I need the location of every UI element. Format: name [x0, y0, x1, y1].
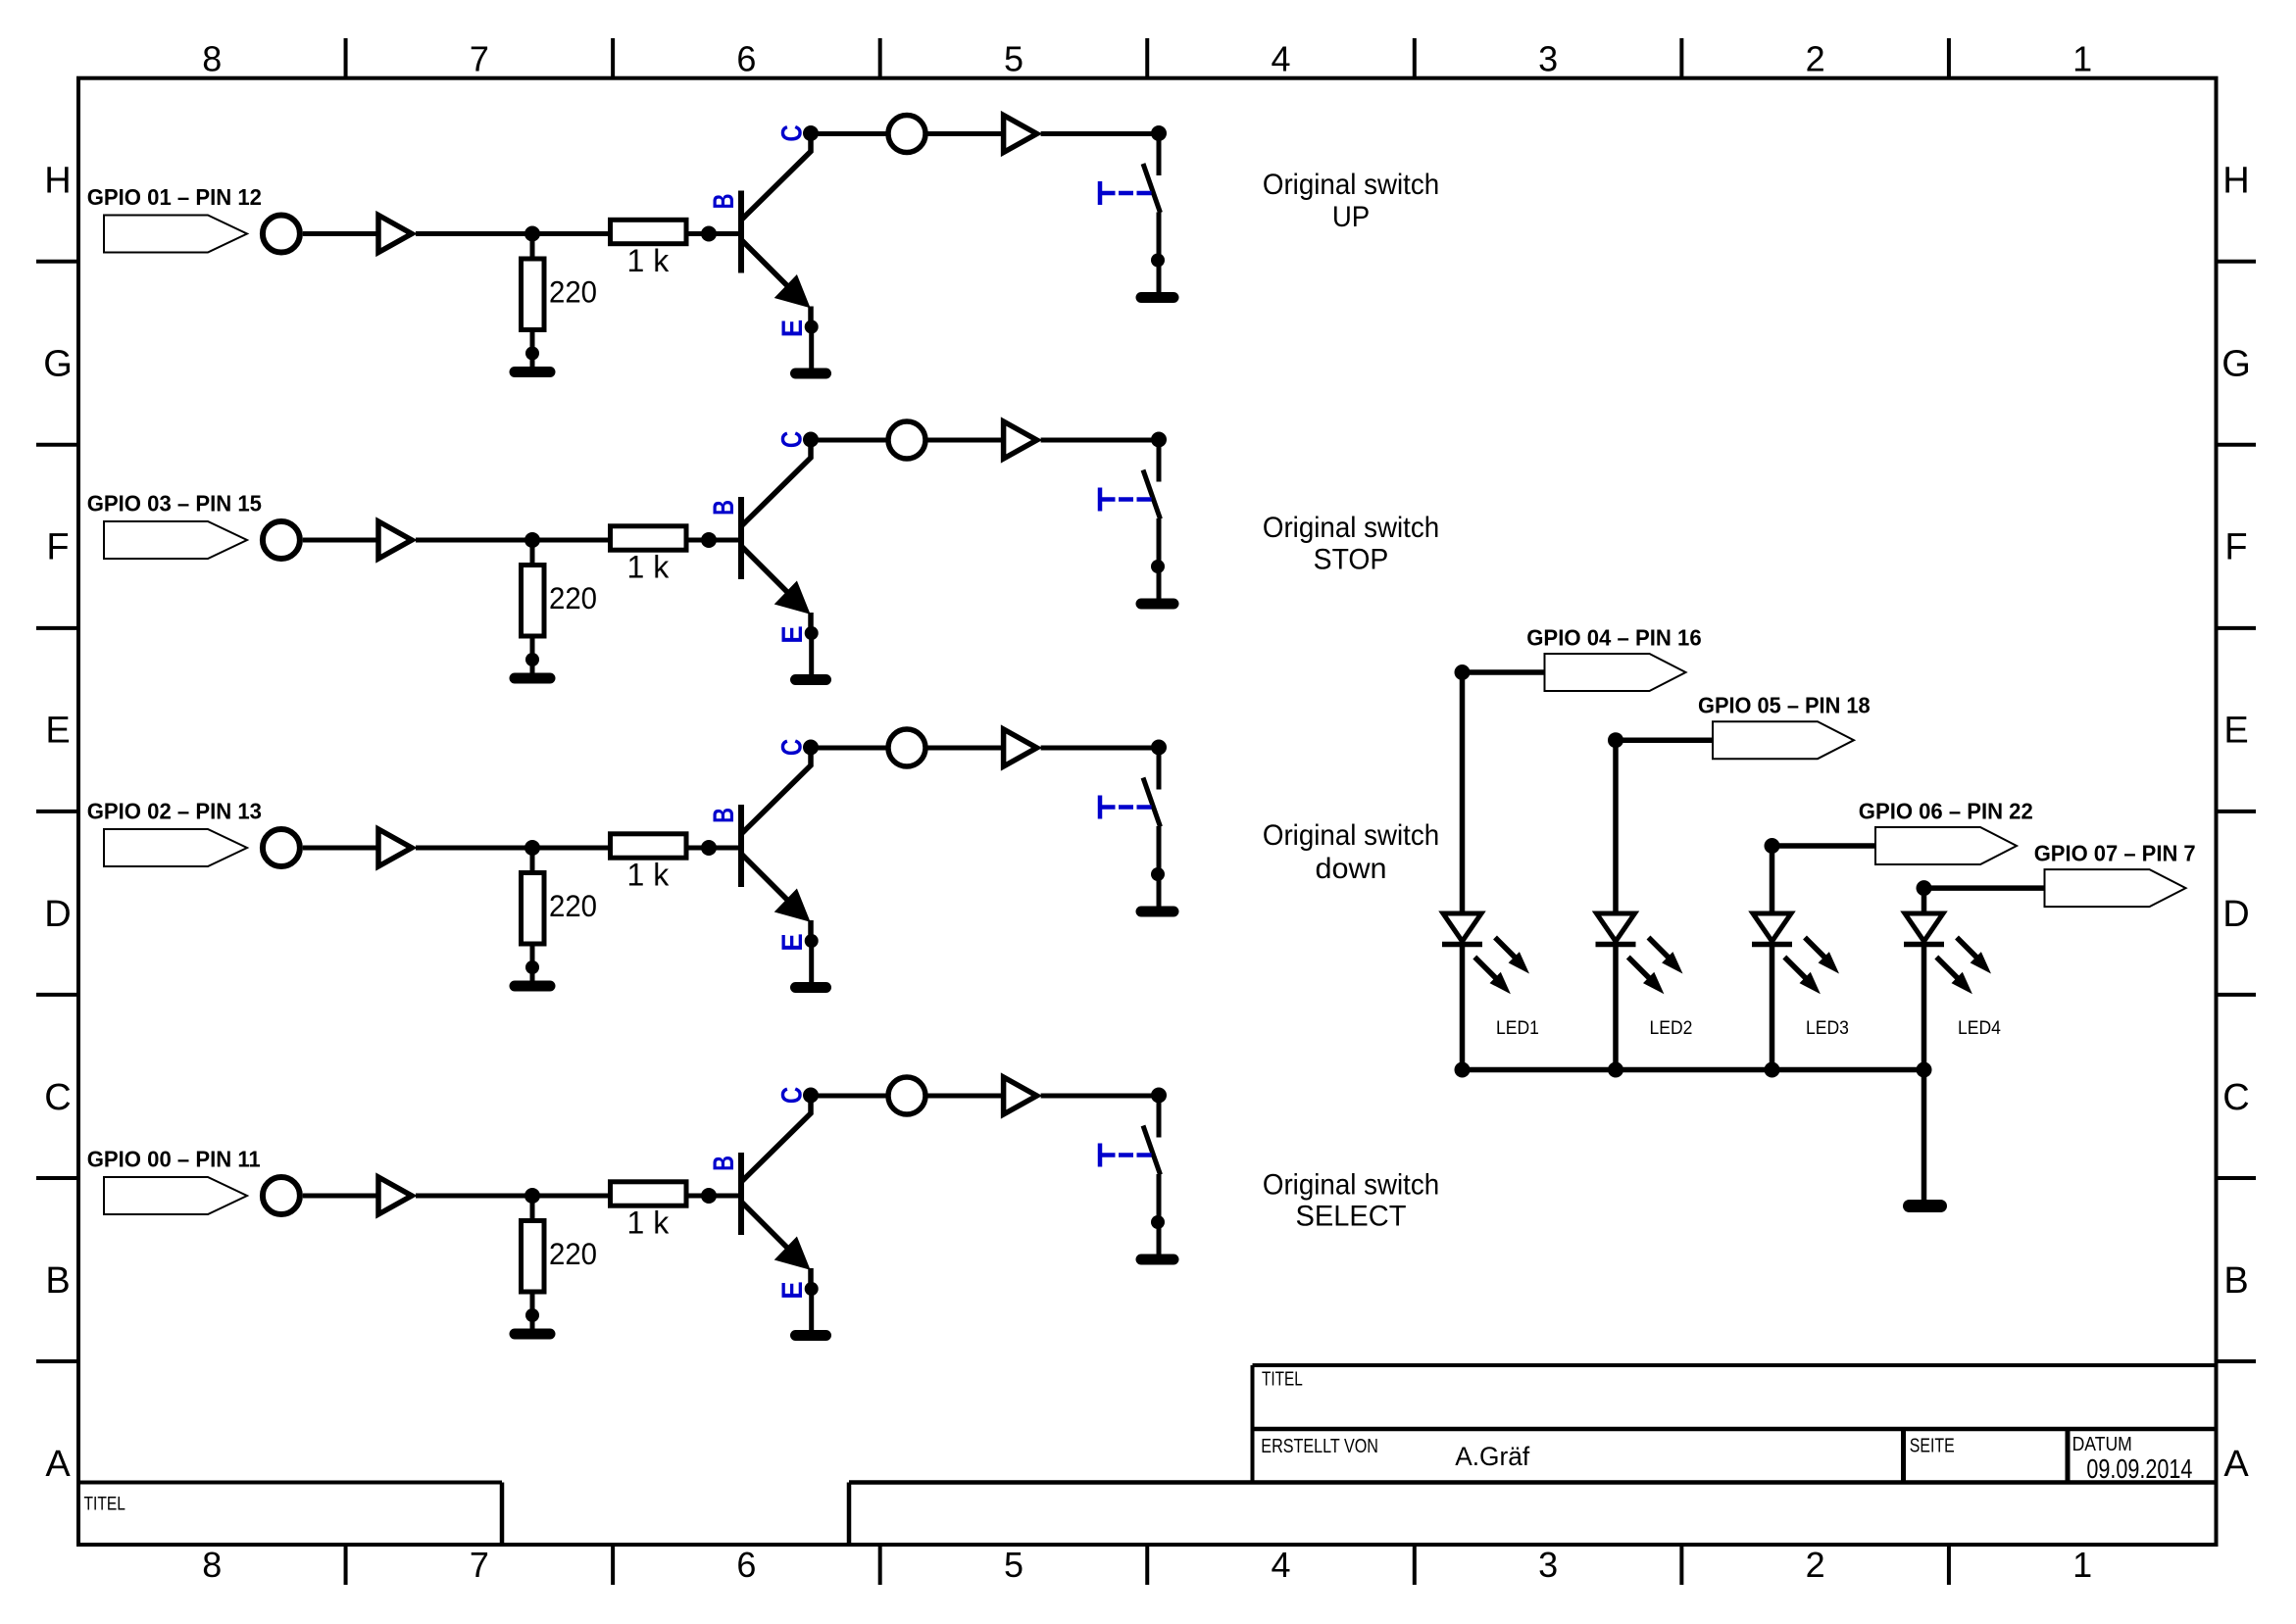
buffer U3a [378, 829, 412, 866]
svg-text:H: H [44, 161, 71, 202]
svg-text:2: 2 [1806, 1545, 1825, 1585]
wire switch to ground (row 4) [1157, 1174, 1162, 1255]
wire node to connector (LED4) [1924, 885, 2045, 891]
wire 1k resistor to base (row 3) [688, 846, 738, 851]
wire pad to buffer (row 1) [303, 231, 376, 236]
output connector pentagon (LED1) [1545, 654, 1686, 691]
switch top node (row 2) [1151, 432, 1167, 448]
node E (row 3) [805, 934, 819, 948]
svg-text:E: E [776, 1281, 809, 1299]
junction node (row 1) [524, 226, 540, 242]
wire buffer to switch (row 1) [1041, 131, 1159, 136]
wire buffer to 1k resistor (row 3) [416, 846, 608, 851]
node C (row 4) [803, 1088, 819, 1104]
svg-text:TITEL: TITEL [84, 1493, 126, 1514]
wire emitter to ground (row 2) [809, 632, 814, 674]
wire node to connector (LED3) [1772, 843, 1876, 849]
lamp circle (row 3) [888, 729, 925, 766]
node E (row 1) [805, 320, 819, 334]
switch actuator (blue, row 4) [1098, 1144, 1103, 1167]
transistor Q1 emitter branch [742, 241, 804, 303]
wire collector node to lamp (row 1) [811, 131, 889, 136]
svg-text:B: B [707, 808, 740, 823]
svg-text:C: C [44, 1077, 71, 1118]
base node (row 1) [701, 226, 717, 242]
transistor Q3 emitter branch [742, 855, 804, 916]
wire junction down to 220 resistor (row 2) [530, 540, 535, 567]
svg-text:Original switch: Original switch [1263, 819, 1439, 852]
diode LED3 [1753, 913, 1791, 941]
switch top node (row 3) [1151, 740, 1167, 756]
light emission arrows (LED2) [1649, 938, 1671, 960]
wire switch to ground (row 2) [1157, 518, 1162, 599]
wire pad to buffer (row 4) [303, 1194, 376, 1199]
wire buffer to switch (row 2) [1041, 438, 1159, 443]
ground (emitter, row 4) [796, 1330, 826, 1341]
svg-text:3: 3 [1538, 38, 1558, 78]
ground (switch, row 4) [1141, 1255, 1173, 1265]
lamp circle (row 4) [888, 1077, 925, 1114]
svg-text:LED1: LED1 [1496, 1016, 1539, 1038]
node E (row 2) [805, 626, 819, 640]
svg-text:B: B [707, 194, 740, 210]
wire emitter to ground (row 1) [809, 326, 814, 369]
ground (emitter, row 1) [796, 369, 826, 379]
svg-text:7: 7 [470, 1545, 489, 1585]
svg-text:7: 7 [470, 38, 489, 78]
buffer U4b [1004, 1077, 1037, 1114]
svg-text:B: B [45, 1260, 70, 1302]
wire node to connector (LED2) [1616, 737, 1713, 743]
pad circle (row 4) [263, 1177, 300, 1214]
ground (below 220 resistor, row 3) [515, 981, 550, 992]
wire buffer to switch (row 4) [1041, 1094, 1159, 1099]
junction at ground (row 4) [525, 1308, 539, 1322]
transistor Q4 base bar [738, 1153, 744, 1235]
svg-text:6: 6 [736, 1545, 756, 1585]
svg-text:C: C [2222, 1077, 2249, 1118]
svg-text:5: 5 [1004, 1545, 1023, 1585]
diode LED4 [1905, 913, 1943, 941]
svg-text:B: B [707, 1156, 740, 1171]
buffer U2b [1004, 421, 1037, 459]
svg-text:F: F [2224, 527, 2247, 568]
output connector pentagon (LED2) [1713, 721, 1854, 759]
wire node to connector (LED1) [1463, 669, 1545, 675]
output connector pentagon (LED4) [2045, 869, 2186, 907]
wire LED3 column [1770, 846, 1775, 1070]
svg-text:E: E [776, 625, 809, 643]
svg-text:GPIO 01 – PIN 12: GPIO 01 – PIN 12 [87, 184, 262, 211]
resistor 220 (row 4) [522, 1221, 545, 1293]
wire collector node to lamp (row 2) [811, 438, 889, 443]
transistor Q3 base bar [738, 805, 744, 887]
wire emitter to ground (row 3) [809, 940, 814, 982]
node E (row 4) [805, 1282, 819, 1296]
switch actuator (blue, row 2) [1098, 488, 1103, 512]
transistor Q3 collector branch [742, 748, 811, 833]
svg-text:A: A [2223, 1444, 2249, 1485]
svg-text:5: 5 [1004, 38, 1023, 78]
input connector pentagon (row 2) [104, 521, 247, 559]
svg-text:GPIO 03 – PIN 15: GPIO 03 – PIN 15 [87, 490, 262, 517]
svg-text:down: down [1315, 854, 1386, 886]
buffer U1a [378, 216, 412, 253]
svg-text:2: 2 [1806, 38, 1825, 78]
svg-text:220: 220 [549, 889, 597, 923]
junction at ground (row 2) [525, 653, 539, 666]
svg-text:LED4: LED4 [1958, 1016, 2001, 1038]
svg-text:A.Gräf: A.Gräf [1455, 1442, 1529, 1472]
switch top node (row 1) [1151, 125, 1167, 141]
ground (below 220 resistor, row 4) [515, 1329, 550, 1340]
transistor Q1 base bar [738, 191, 744, 273]
wire 1k resistor to base (row 2) [688, 538, 738, 543]
wire collector node to lamp (row 4) [811, 1094, 889, 1099]
input connector pentagon (row 4) [104, 1177, 247, 1214]
lamp circle (row 2) [888, 421, 925, 459]
node LED2 top [1608, 732, 1623, 748]
ground (emitter, row 2) [796, 674, 826, 685]
wire LED1 column [1460, 672, 1466, 1070]
buffer U1b [1004, 116, 1037, 153]
svg-text:Original switch: Original switch [1263, 512, 1439, 544]
svg-text:GPIO 05 – PIN 18: GPIO 05 – PIN 18 [1698, 693, 1871, 718]
buffer U3b [1004, 729, 1037, 766]
junction at ground (row 1) [525, 347, 539, 361]
junction at ground (row 3) [525, 960, 539, 974]
svg-text:1 k: 1 k [627, 550, 671, 585]
svg-text:4: 4 [1272, 38, 1291, 78]
node LED3 bottom [1765, 1062, 1780, 1078]
svg-text:Original switch: Original switch [1263, 169, 1439, 201]
wire 220 resistor to ground (row 4) [530, 1292, 535, 1331]
svg-text:E: E [45, 711, 70, 752]
wire 220 resistor to ground (row 2) [530, 636, 535, 675]
wire rail to ground [1922, 1070, 1927, 1201]
svg-text:A: A [45, 1444, 71, 1485]
wire 1k resistor to base (row 1) [688, 231, 738, 236]
svg-text:4: 4 [1272, 1545, 1291, 1585]
common cathode rail wire [1463, 1067, 1924, 1073]
svg-text:220: 220 [549, 1237, 597, 1271]
wire buffer to 1k resistor (row 1) [416, 231, 608, 236]
junction node (row 4) [524, 1188, 540, 1204]
svg-text:C: C [774, 1087, 808, 1104]
wire 220 resistor to ground (row 3) [530, 944, 535, 983]
junction node (row 2) [524, 532, 540, 548]
wire switch to ground (row 3) [1157, 826, 1162, 907]
ground (switch, row 1) [1141, 292, 1173, 303]
resistor 220 (row 1) [522, 259, 545, 330]
resistor 1 k (row 4) [611, 1182, 687, 1206]
base node (row 3) [701, 840, 717, 856]
svg-text:G: G [43, 344, 73, 385]
switch S3 [1157, 748, 1162, 790]
svg-text:C: C [774, 739, 808, 756]
node below switch (row 2) [1151, 560, 1165, 573]
wire 220 resistor to ground (row 1) [530, 330, 535, 369]
svg-text:220: 220 [549, 581, 597, 615]
node LED4 top [1917, 880, 1932, 896]
node LED1 top [1455, 664, 1471, 680]
title block [1251, 1365, 1255, 1483]
light emission arrows (LED3) [1805, 938, 1826, 960]
svg-text:H: H [2222, 161, 2249, 202]
wire buffer to 1k resistor (row 4) [416, 1194, 608, 1199]
ground (LED rail) [1910, 1200, 1941, 1212]
svg-text:TITEL: TITEL [1262, 1368, 1303, 1390]
svg-text:09.09.2014: 09.09.2014 [2086, 1453, 2192, 1484]
svg-text:E: E [776, 320, 809, 337]
diode LED2 [1597, 913, 1635, 941]
node LED3 top [1765, 838, 1780, 854]
transistor Q2 emitter branch [742, 547, 804, 609]
wire junction down to 220 resistor (row 1) [530, 234, 535, 262]
svg-text:Original switch: Original switch [1263, 1169, 1439, 1202]
wire lamp to buffer (row 1) [925, 131, 1001, 136]
input connector pentagon (row 3) [104, 829, 247, 866]
wire lamp to buffer (row 4) [925, 1094, 1001, 1099]
node below switch (row 1) [1151, 254, 1165, 268]
wire junction down to 220 resistor (row 4) [530, 1196, 535, 1223]
wire collector node to lamp (row 3) [811, 746, 889, 751]
buffer U2a [378, 521, 412, 559]
ground (below 220 resistor, row 1) [515, 367, 550, 377]
svg-text:E: E [776, 933, 809, 951]
switch S1 [1157, 134, 1162, 176]
svg-text:GPIO 07 – PIN 7: GPIO 07 – PIN 7 [2034, 841, 2196, 866]
resistor 220 (row 3) [522, 873, 545, 945]
svg-text:D: D [44, 894, 71, 935]
switch top node (row 4) [1151, 1088, 1167, 1104]
ground (emitter, row 3) [796, 982, 826, 993]
svg-text:GPIO 00 – PIN 11: GPIO 00 – PIN 11 [87, 1146, 261, 1172]
svg-text:GPIO 06 – PIN 22: GPIO 06 – PIN 22 [1859, 798, 2033, 824]
junction node (row 3) [524, 840, 540, 856]
node C (row 1) [803, 125, 819, 141]
svg-text:GPIO 04 – PIN 16: GPIO 04 – PIN 16 [1526, 624, 1701, 651]
pad circle (row 3) [263, 829, 300, 866]
node LED1 bottom [1455, 1062, 1471, 1078]
light emission arrows (LED4) [1957, 938, 1978, 960]
transistor Q4 emitter branch [742, 1203, 804, 1264]
svg-text:C: C [774, 124, 808, 141]
wire lamp to buffer (row 2) [925, 438, 1001, 443]
svg-text:B: B [2223, 1260, 2248, 1302]
svg-text:GPIO 02 – PIN 13: GPIO 02 – PIN 13 [87, 798, 262, 824]
node below switch (row 3) [1151, 867, 1165, 881]
node LED2 bottom [1608, 1062, 1623, 1078]
svg-text:STOP: STOP [1314, 544, 1389, 576]
wire LED2 column [1613, 740, 1619, 1069]
transistor Q1 collector branch [742, 134, 811, 220]
svg-text:LED2: LED2 [1650, 1016, 1693, 1038]
svg-text:SELECT: SELECT [1296, 1200, 1407, 1232]
svg-text:8: 8 [202, 38, 222, 78]
svg-text:6: 6 [736, 38, 756, 78]
pad circle (row 2) [263, 521, 300, 559]
wire pad to buffer (row 3) [303, 846, 376, 851]
pad circle (row 1) [263, 216, 300, 253]
wire junction down to 220 resistor (row 3) [530, 848, 535, 875]
switch S2 [1157, 440, 1162, 482]
svg-text:ERSTELLT VON: ERSTELLT VON [1261, 1435, 1378, 1456]
switch S4 [1157, 1096, 1162, 1138]
svg-text:3: 3 [1538, 1545, 1558, 1585]
svg-text:1 k: 1 k [627, 243, 671, 278]
svg-text:220: 220 [549, 274, 597, 309]
ground (below 220 resistor, row 2) [515, 673, 550, 684]
light emission arrows (LED1) [1495, 938, 1517, 960]
svg-text:LED3: LED3 [1806, 1016, 1849, 1038]
svg-text:D: D [2222, 894, 2249, 935]
svg-text:UP: UP [1332, 201, 1370, 233]
node C (row 3) [803, 740, 819, 756]
svg-text:1 k: 1 k [627, 1206, 671, 1241]
switch actuator (blue, row 1) [1098, 181, 1103, 205]
svg-text:1: 1 [2072, 38, 2092, 78]
wire emitter to ground (row 4) [809, 1288, 814, 1330]
resistor 220 (row 2) [522, 566, 545, 637]
buffer U4a [378, 1177, 412, 1214]
ground (switch, row 3) [1141, 907, 1173, 917]
input connector pentagon (row 1) [104, 216, 247, 253]
svg-text:SEITE: SEITE [1910, 1435, 1955, 1456]
node below switch (row 4) [1151, 1215, 1165, 1229]
node LED4 bottom [1917, 1062, 1932, 1078]
resistor 1 k (row 3) [611, 834, 687, 858]
svg-text:1 k: 1 k [627, 858, 671, 893]
transistor Q2 collector branch [742, 440, 811, 525]
output connector pentagon (LED3) [1875, 827, 2017, 864]
node C (row 2) [803, 432, 819, 448]
wire lamp to buffer (row 3) [925, 746, 1001, 751]
wire 1k resistor to base (row 4) [688, 1194, 738, 1199]
wire LED4 column [1922, 888, 1927, 1069]
svg-text:C: C [774, 431, 808, 448]
svg-text:F: F [46, 527, 69, 568]
transistor Q2 base bar [738, 497, 744, 579]
svg-text:DATUM: DATUM [2072, 1433, 2132, 1454]
svg-text:8: 8 [202, 1545, 222, 1585]
svg-text:E: E [2223, 711, 2248, 752]
ground (switch, row 2) [1141, 599, 1173, 610]
svg-text:1: 1 [2072, 1545, 2092, 1585]
resistor 1 k (row 2) [611, 526, 687, 550]
transistor Q4 collector branch [742, 1096, 811, 1181]
lamp circle (row 1) [888, 116, 925, 153]
wire pad to buffer (row 2) [303, 538, 376, 543]
svg-text:B: B [707, 500, 740, 516]
switch actuator (blue, row 3) [1098, 796, 1103, 819]
svg-text:G: G [2221, 344, 2251, 385]
diode LED1 [1443, 913, 1481, 941]
base node (row 4) [701, 1188, 717, 1204]
resistor 1 k (row 1) [611, 220, 687, 243]
wire buffer to 1k resistor (row 2) [416, 538, 608, 543]
base node (row 2) [701, 532, 717, 548]
wire switch to ground (row 1) [1157, 213, 1162, 293]
wire buffer to switch (row 3) [1041, 746, 1159, 751]
